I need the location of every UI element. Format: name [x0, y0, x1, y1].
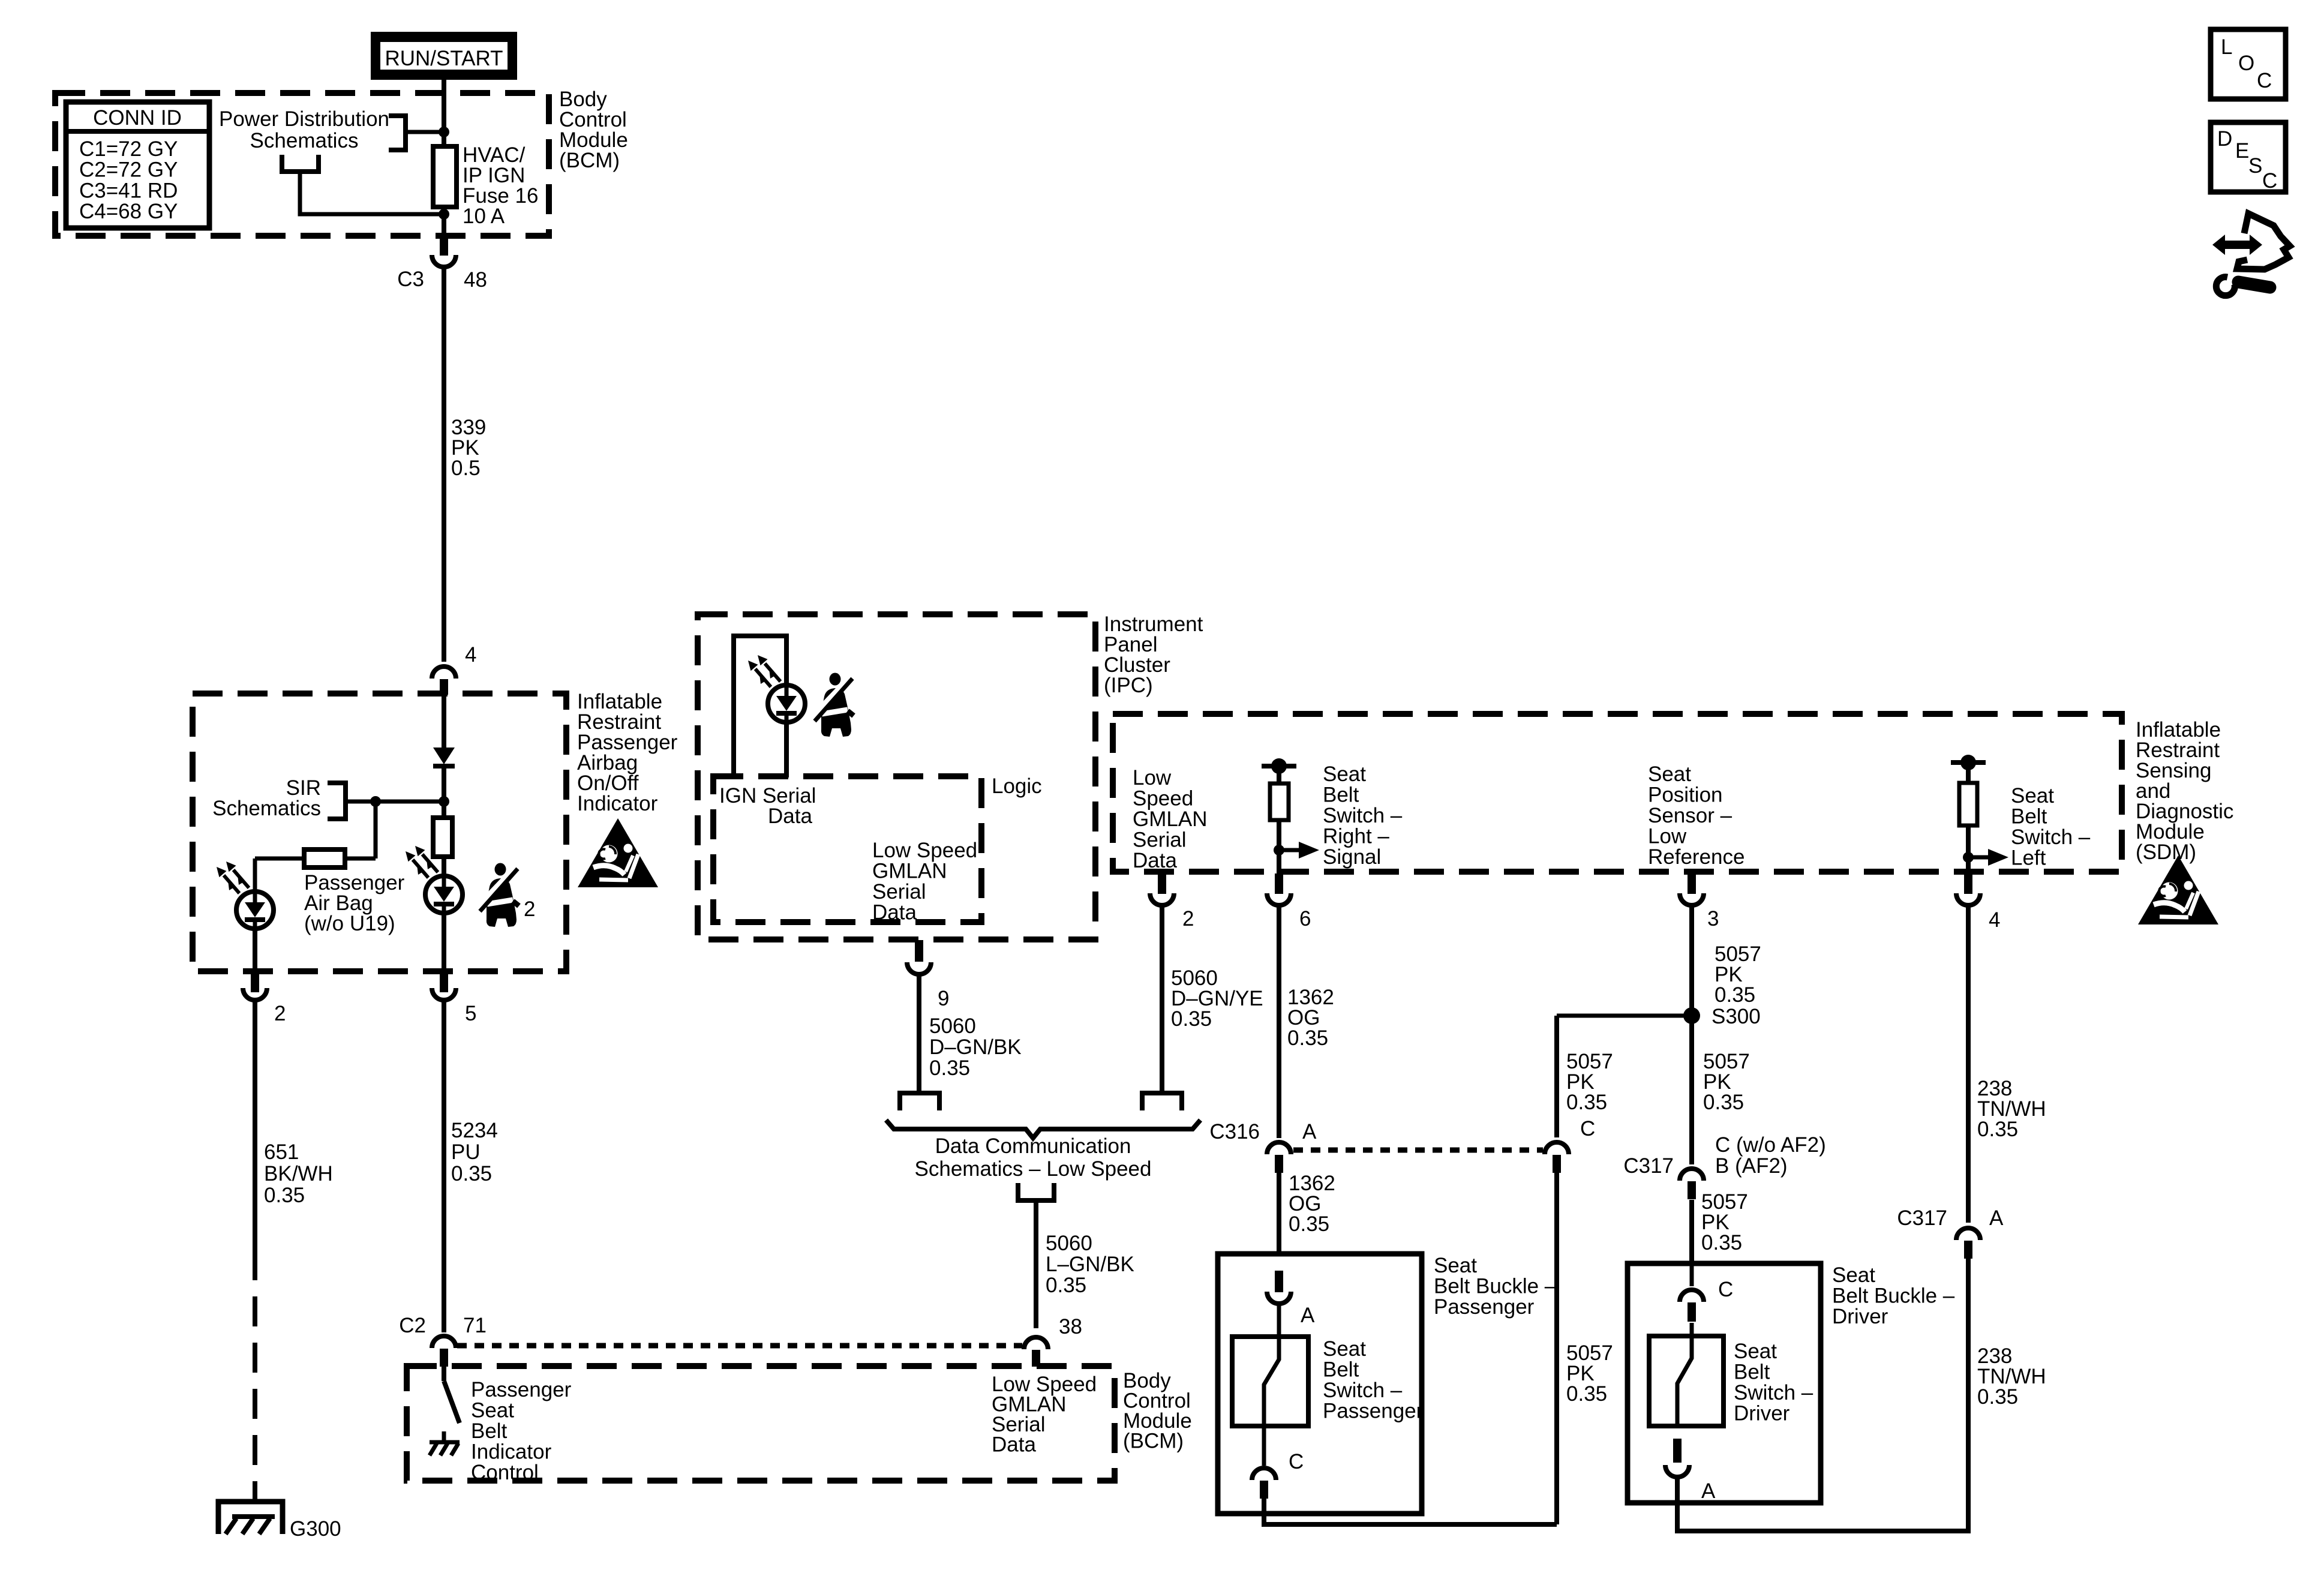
Instrument Panel Cluster dashed box	[698, 614, 1095, 939]
node fuse bottom	[439, 209, 449, 220]
svg-text:(SDM): (SDM)	[2136, 840, 2196, 864]
svg-text:A: A	[1989, 1206, 2004, 1230]
wire LED to pin 5	[442, 913, 446, 972]
wire LED to pin 2	[253, 929, 257, 972]
svg-text:Data: Data	[872, 901, 917, 924]
wire fuse to box edge	[442, 207, 446, 236]
svg-text:GMLAN: GMLAN	[872, 860, 947, 883]
svg-text:5234: 5234	[451, 1119, 498, 1142]
label Seat Belt Switch - Left	[2011, 784, 2091, 870]
svg-text:Seat: Seat	[1323, 1337, 1366, 1361]
svg-text:71: 71	[463, 1314, 487, 1337]
svg-text:D: D	[2217, 127, 2232, 151]
node arrow right switch	[1274, 842, 1319, 858]
svg-text:Switch –: Switch –	[1323, 1379, 1403, 1402]
node SIR branch	[370, 796, 381, 807]
dotted net C316 to C	[1293, 1148, 1543, 1153]
SIR Schematics reference	[212, 776, 321, 820]
connector C3 pin 48	[397, 236, 487, 292]
svg-text:Indicator: Indicator	[471, 1440, 552, 1464]
svg-text:Data: Data	[1133, 849, 1177, 872]
dotted net C2 to BCM 38	[457, 1343, 1022, 1349]
label Instrument Panel Cluster (IPC)	[1104, 613, 1203, 697]
svg-text:C4=68 GY: C4=68 GY	[79, 200, 178, 223]
svg-text:C: C	[1580, 1117, 1595, 1140]
wire 5234 PU	[442, 1002, 446, 1332]
svg-text:Control: Control	[471, 1461, 539, 1484]
label IGN Serial Data	[719, 784, 816, 828]
svg-text:5060: 5060	[1046, 1232, 1092, 1255]
svg-text:48: 48	[464, 268, 487, 292]
svg-text:38: 38	[1059, 1315, 1082, 1338]
wire label 238 TN/WH 0.35 upper	[1977, 1077, 2046, 1141]
svg-text:0.35: 0.35	[1046, 1274, 1086, 1297]
label Seat Belt Buckle - Driver	[1832, 1263, 1955, 1328]
svg-text:Seat: Seat	[1734, 1340, 1777, 1363]
svg-text:Seat: Seat	[1832, 1263, 1875, 1287]
svg-text:Passenger: Passenger	[1323, 1400, 1424, 1423]
LED seat belt lamp IPC	[768, 685, 805, 722]
svg-text:Belt Buckle –: Belt Buckle –	[1832, 1284, 1955, 1308]
connector C on passenger loop	[1545, 1117, 1595, 1173]
svg-text:Belt: Belt	[1323, 784, 1359, 807]
LED arrows IPC	[748, 655, 780, 687]
connector SDM pin 4	[1956, 873, 2000, 932]
fasten seat belt icon	[480, 863, 519, 927]
svg-text:Seat: Seat	[1323, 763, 1366, 786]
resistor seat belt switch left	[1959, 783, 1977, 825]
svg-text:9: 9	[938, 987, 949, 1010]
resistor passenger airbag lamp	[255, 849, 376, 867]
node fuse top	[439, 127, 449, 137]
wire 339 PK 0.5	[442, 268, 446, 662]
svg-text:0.35: 0.35	[264, 1184, 305, 1207]
svg-text:0.35: 0.35	[1566, 1382, 1607, 1406]
svg-text:Schematics: Schematics	[212, 797, 321, 820]
svg-text:2: 2	[1182, 907, 1194, 930]
svg-text:C3=41 RD: C3=41 RD	[79, 179, 178, 202]
label Data Communication Schematics - Low Speed	[915, 1134, 1152, 1181]
bracket from SDM 2 wire	[1142, 1093, 1182, 1110]
svg-text:3: 3	[1707, 907, 1719, 930]
wire 1362 OG lower	[1277, 1173, 1281, 1255]
connector C2 pin 71	[399, 1314, 487, 1367]
wire C317 to driver buckle	[1689, 1200, 1694, 1265]
svg-text:2: 2	[524, 897, 535, 921]
wire RUN/START to BCM fuse	[442, 80, 446, 146]
LED arrows 2	[406, 846, 438, 878]
wire C passenger loop bottom	[1264, 1497, 1557, 1524]
svg-text:0.35: 0.35	[1715, 983, 1755, 1007]
Seat Belt Buckle - Driver box	[1628, 1263, 1821, 1503]
svg-text:0.35: 0.35	[1171, 1007, 1212, 1031]
svg-text:C: C	[1718, 1278, 1733, 1301]
wire label 339 PK 0.5	[451, 416, 486, 480]
connector C317 driver	[1623, 1133, 1825, 1199]
wire 5060 D-GN/BK	[917, 975, 921, 1093]
wire resistor to LED	[442, 857, 446, 876]
ground G300	[218, 1482, 283, 1534]
svg-text:4: 4	[465, 643, 476, 667]
wire label 651 BK/WH 0.35	[264, 1140, 333, 1207]
svg-text:PU: PU	[451, 1140, 481, 1164]
svg-text:Schematics: Schematics	[250, 129, 359, 152]
svg-text:6: 6	[1299, 907, 1311, 930]
svg-text:0.35: 0.35	[1566, 1091, 1607, 1114]
svg-text:Belt: Belt	[1323, 1358, 1359, 1382]
BCM title top	[559, 88, 628, 172]
resistor seat belt switch right	[1270, 784, 1289, 820]
svg-text:C3: C3	[397, 268, 424, 291]
svg-text:Power Distribution: Power Distribution	[219, 107, 389, 131]
svg-text:0.35: 0.35	[1703, 1091, 1744, 1114]
svg-text:0.35: 0.35	[1287, 1026, 1328, 1050]
svg-text:Seat: Seat	[1434, 1254, 1477, 1277]
svg-text:Belt: Belt	[1734, 1361, 1770, 1384]
CONN ID table	[66, 102, 209, 228]
Inflatable Restraint Sensing and Diagnostic Module dashed box	[1113, 714, 2122, 872]
svg-text:C316: C316	[1209, 1120, 1260, 1143]
svg-text:10 A: 10 A	[463, 205, 505, 228]
resistor seat belt lamp	[433, 818, 452, 857]
svg-text:C: C	[2262, 169, 2277, 193]
connector id rows	[79, 137, 178, 223]
Body Control Module (BCM) dashed box bottom	[407, 1366, 1115, 1481]
svg-text:Data Communication: Data Communication	[935, 1134, 1131, 1158]
svg-text:BK/WH: BK/WH	[264, 1162, 333, 1185]
svg-text:651: 651	[264, 1140, 299, 1164]
seat belt switch passenger blade	[1264, 1338, 1279, 1427]
svg-text:C (w/o AF2): C (w/o AF2)	[1715, 1133, 1826, 1157]
label Seat Position Sensor - Low Reference	[1648, 763, 1744, 869]
connector BCM pin 38	[1024, 1315, 1082, 1367]
svg-text:Speed: Speed	[1133, 787, 1193, 810]
DESC reference box	[2211, 122, 2286, 193]
wire label 5060 D-GN/YE 0.35	[1171, 966, 1263, 1031]
wire label 5057 PK 0.35 below C317	[1701, 1190, 1748, 1254]
svg-text:Belt: Belt	[2011, 805, 2047, 828]
airbag warning triangle SDM	[2138, 855, 2218, 924]
label Seat Belt Switch - Right - Signal	[1323, 763, 1403, 869]
svg-text:L–GN/BK: L–GN/BK	[1046, 1253, 1134, 1276]
wire label 5060 D-GN/BK 0.35	[929, 1014, 1022, 1080]
svg-text:C: C	[1289, 1450, 1304, 1473]
connector SDM pin 2	[1150, 873, 1194, 930]
wire resistor to pin 6	[1277, 820, 1281, 873]
svg-text:Reference: Reference	[1648, 845, 1744, 869]
svg-text:(w/o U19): (w/o U19)	[304, 912, 395, 935]
wire label 5060 L-GN/BK 0.35	[1046, 1232, 1134, 1297]
node main SIR junction	[439, 796, 449, 807]
wire label 1362 OG 0.35 lower	[1289, 1172, 1335, 1236]
svg-text:0.5: 0.5	[451, 457, 481, 480]
svg-text:Switch –: Switch –	[2011, 825, 2091, 849]
wire 5060 D-GN/YE	[1160, 906, 1164, 1093]
connector SDM pin 3	[1680, 873, 1719, 930]
svg-text:C317: C317	[1897, 1206, 1947, 1230]
label Passenger Seat Belt Indicator Control	[471, 1378, 572, 1484]
svg-text:5: 5	[465, 1002, 476, 1025]
bracket right of Power Distribution	[389, 116, 406, 150]
wire label 5234 PU 0.35	[451, 1119, 498, 1185]
svg-text:D–GN/BK: D–GN/BK	[929, 1035, 1022, 1059]
svg-text:Right –: Right –	[1323, 825, 1389, 848]
svg-text:0.35: 0.35	[451, 1162, 492, 1185]
wire 651 BK/WH dashed part	[253, 1250, 257, 1482]
fasten seat belt icon IPC	[815, 673, 854, 737]
airbag warning triangle	[578, 818, 658, 887]
wire label 238 TN/WH 0.35 lower	[1977, 1344, 2046, 1409]
Seat Belt Buckle - Passenger box	[1218, 1254, 1422, 1514]
connector pin 4 of indicator module	[432, 643, 476, 695]
svg-text:Schematics – Low Speed: Schematics – Low Speed	[915, 1157, 1152, 1181]
svg-text:L: L	[2221, 35, 2232, 59]
seat belt switch right branch	[1262, 758, 1296, 785]
svg-text:0.35: 0.35	[1289, 1212, 1329, 1236]
svg-text:0.35: 0.35	[1977, 1118, 2018, 1141]
brace data communication	[886, 1120, 1200, 1138]
svg-text:Passenger: Passenger	[1434, 1295, 1535, 1319]
wire 651 BK/WH solid part	[253, 1002, 257, 1250]
bracket under Data Communication	[1018, 1183, 1054, 1200]
connector pin 5	[432, 969, 476, 1025]
svg-text:(BCM): (BCM)	[559, 149, 620, 172]
wire branch down to resistor	[374, 801, 378, 858]
svg-text:A: A	[1701, 1479, 1716, 1503]
connector buckle driver pin A	[1665, 1439, 1716, 1503]
fuse label	[463, 143, 538, 228]
svg-text:2: 2	[274, 1002, 286, 1025]
Power Distribution Schematics reference	[219, 107, 389, 152]
wire label 5057 PK 0.35 below S300	[1703, 1050, 1750, 1114]
svg-text:A: A	[1301, 1304, 1315, 1327]
svg-text:Seat: Seat	[2011, 784, 2054, 807]
wire LED to logic box	[784, 722, 789, 778]
seat belt switch driver blade	[1677, 1338, 1692, 1427]
wire A to switch passenger	[1277, 1305, 1281, 1338]
wire label 5057 PK 0.35 left branch	[1566, 1050, 1613, 1114]
SIR bracket	[328, 783, 346, 819]
svg-text:Indicator: Indicator	[577, 792, 658, 815]
svg-text:S: S	[2248, 154, 2262, 178]
connector C316 pin A	[1209, 1120, 1317, 1173]
LOC reference box	[2211, 29, 2286, 99]
svg-text:Passenger: Passenger	[471, 1378, 572, 1401]
wire bracket to fuse top node	[406, 130, 442, 134]
label Body Control Module (BCM) bottom	[1123, 1369, 1192, 1453]
wire diode to SIR node	[442, 766, 446, 818]
label Low Speed GMLAN Serial Data (SDM)	[1133, 766, 1207, 872]
svg-text:Low Speed: Low Speed	[872, 839, 977, 862]
svg-text:5060: 5060	[929, 1014, 976, 1038]
Inflatable Restraint Passenger Airbag On/Off Indicator dashed box	[193, 694, 566, 971]
wire label 5057 PK 0.35 above S300	[1715, 942, 1761, 1007]
svg-text:Seat: Seat	[471, 1399, 514, 1422]
wire driver loop bottom	[1677, 1259, 1968, 1531]
Logic dashed box	[713, 776, 981, 922]
svg-text:(IPC): (IPC)	[1104, 674, 1153, 697]
wire to LED passenger airbag	[253, 858, 257, 891]
bracket from IPC 9 wire	[900, 1093, 939, 1110]
svg-text:Data: Data	[992, 1433, 1036, 1457]
wire label 1362 OG 0.35	[1287, 986, 1334, 1050]
label Seat Belt Switch - Driver	[1734, 1340, 1813, 1425]
bracket under Schematics	[282, 155, 319, 172]
label Seat Belt Switch - Passenger	[1323, 1337, 1424, 1423]
svg-text:Sensor –: Sensor –	[1648, 804, 1733, 827]
wire lamp loop	[734, 636, 786, 778]
switch box driver	[1649, 1336, 1724, 1426]
svg-text:C2=72 GY: C2=72 GY	[79, 158, 178, 182]
svg-text:CONN ID: CONN ID	[93, 106, 182, 130]
svg-text:Left: Left	[2011, 846, 2046, 870]
Body Control Module (BCM) dashed box top	[55, 93, 549, 236]
svg-text:0.35: 0.35	[1701, 1231, 1742, 1254]
wire SIR bracket to node	[346, 800, 444, 804]
passenger seat belt indicator control switch	[444, 1381, 460, 1423]
LED seat belt indicator	[425, 876, 463, 913]
fuse HVAC/IP IGN Fuse 16 10 A	[433, 146, 457, 207]
wire 238 TN/WH upper	[1966, 906, 1971, 1223]
svg-text:0.35: 0.35	[1977, 1385, 2018, 1409]
svg-text:4: 4	[1989, 908, 2000, 932]
svg-text:Logic: Logic	[992, 775, 1042, 798]
ignition voltage box RUN/START	[371, 32, 517, 80]
svg-text:C2: C2	[399, 1314, 426, 1337]
svg-text:C1=72 GY: C1=72 GY	[79, 137, 178, 161]
LED passenger air bag indicator	[236, 891, 274, 929]
svg-text:(BCM): (BCM)	[1123, 1430, 1184, 1453]
connector pin 2	[243, 969, 286, 1025]
wire label 5057 PK 0.35 loop	[1566, 1341, 1613, 1406]
svg-text:Signal: Signal	[1323, 845, 1381, 869]
svg-text:Position: Position	[1648, 784, 1723, 807]
connector buckle passenger pin C	[1252, 1427, 1304, 1499]
wire 5057 PK pin3 to S300	[1689, 906, 1694, 1164]
svg-text:Low: Low	[1648, 825, 1687, 848]
wire bracket to fuse bottom node	[300, 172, 442, 214]
svg-text:Belt: Belt	[471, 1419, 508, 1443]
label Low Speed GMLAN Serial Data (BCM)	[992, 1373, 1097, 1457]
svg-text:Serial: Serial	[872, 880, 926, 903]
svg-text:Seat: Seat	[1648, 763, 1691, 786]
node S300	[1683, 1005, 1761, 1028]
label SDM	[2136, 718, 2233, 864]
svg-text:Serial: Serial	[1133, 828, 1186, 852]
wire into module	[442, 694, 446, 748]
wire C to switch driver	[1690, 1323, 1694, 1338]
seat belt switch left branch	[1951, 755, 1986, 784]
diagnostic car icon	[2212, 214, 2290, 296]
svg-text:Belt Buckle –: Belt Buckle –	[1434, 1275, 1557, 1298]
node arrow left switch	[1963, 849, 2008, 866]
LED arrows	[217, 861, 249, 893]
svg-text:0.35: 0.35	[929, 1056, 970, 1080]
svg-text:S300: S300	[1712, 1005, 1761, 1028]
svg-text:A: A	[1302, 1120, 1317, 1143]
switch box passenger	[1232, 1337, 1308, 1426]
module label	[577, 690, 678, 815]
connector C317 pin A right	[1897, 1206, 2004, 1259]
svg-text:Driver: Driver	[1832, 1305, 1888, 1328]
svg-text:Data: Data	[768, 804, 812, 828]
label Low Speed GMLAN Serial Data (logic)	[872, 839, 977, 924]
svg-text:E: E	[2235, 139, 2249, 163]
svg-text:GMLAN: GMLAN	[1133, 807, 1207, 831]
svg-text:C317: C317	[1623, 1154, 1674, 1178]
connector SDM pin 6	[1267, 873, 1311, 930]
svg-text:RUN/START: RUN/START	[385, 47, 503, 70]
svg-text:O: O	[2238, 52, 2254, 75]
svg-text:Driver: Driver	[1734, 1402, 1790, 1425]
wire 5060 L-GN/BK	[1034, 1200, 1038, 1328]
wire S300 branch left	[1557, 1016, 1692, 1137]
svg-text:G300: G300	[290, 1517, 341, 1541]
svg-text:Switch –: Switch –	[1734, 1381, 1813, 1404]
wire resistor to pin 4	[1966, 825, 1971, 873]
internal ground	[430, 1431, 460, 1455]
svg-text:B (AF2): B (AF2)	[1715, 1154, 1788, 1178]
connector IPC pin 9	[907, 940, 949, 1010]
svg-text:C: C	[2257, 69, 2272, 92]
wire into BCM	[442, 1365, 446, 1381]
diode D1	[433, 748, 455, 766]
label Passenger Air Bag (w/o U19)	[304, 871, 405, 935]
connector buckle passenger pin A	[1267, 1271, 1315, 1327]
wire 1362 OG upper	[1277, 906, 1281, 1138]
svg-text:Low: Low	[1133, 766, 1172, 789]
wire C down to buckle loop	[1554, 1173, 1559, 1524]
svg-text:Switch –: Switch –	[1323, 804, 1403, 827]
label Seat Belt Buckle - Passenger	[1434, 1254, 1557, 1319]
wire to resistor seat belt lamp	[442, 801, 446, 819]
connector buckle driver pin C	[1680, 1263, 1733, 1322]
